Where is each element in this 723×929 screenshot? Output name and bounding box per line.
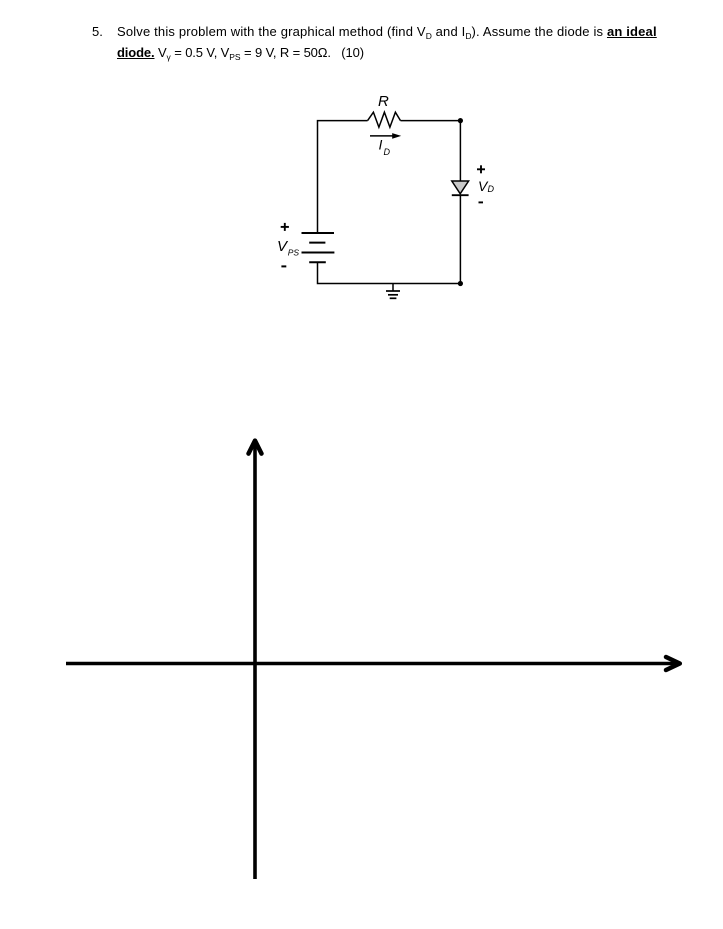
junction node top-right [458,118,463,123]
wire left vertical + top horizontal (battery to resistor) [318,121,368,233]
ground bar 2 [388,294,398,296]
battery plate 3 (long) [302,252,335,254]
label - (diode) [479,201,484,203]
battery V_PS plate 1 (long) [302,232,335,234]
wire resistor to top-right corner [401,120,461,122]
ground bar 3 [390,297,397,299]
svg-text:D: D [384,147,391,157]
wire bottom horizontal (battery to bottom-right node) [318,262,461,283]
ground stub [392,284,394,292]
current arrow I_D [370,133,401,139]
svg-text:I: I [379,137,383,153]
ground bar 1 [386,290,400,292]
svg-text:PS: PS [288,247,300,257]
wire right vertical (bottom) [459,195,461,283]
x-axis [66,662,676,666]
y-axis [253,443,257,879]
label + (battery) [281,223,289,231]
problem statement text [92,24,103,39]
svg-text:D: D [488,184,495,194]
svg-text:R: R [378,93,389,110]
wire right vertical (top) [459,121,461,181]
label + (diode) [477,165,485,173]
resistor R zigzag [368,112,401,127]
label - (battery) [281,265,286,267]
junction node bottom-right [458,281,463,286]
diode D1 triangle [452,181,469,194]
x-axis arrowhead [666,657,680,670]
diode cathode bar [452,194,469,196]
y-axis arrowhead [249,441,262,454]
battery plate 4 (short) [309,261,326,263]
battery plate 2 (short) [309,242,325,244]
